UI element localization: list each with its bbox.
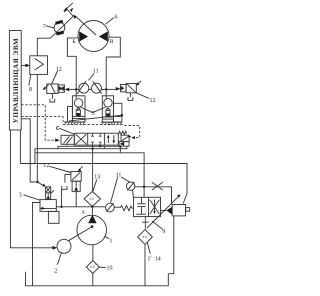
svg-text:11: 11 <box>116 172 122 178</box>
leader <box>52 71 58 84</box>
leader 11 <box>89 74 95 81</box>
servo cylinder right body <box>102 96 113 122</box>
pump control cylinder 3 <box>40 200 56 212</box>
right cylinder ball <box>104 99 112 107</box>
valve 12b solenoid arrow <box>137 81 141 84</box>
leader 1 <box>104 236 109 239</box>
channel line with arrow to valve 12a <box>68 88 79 90</box>
adjuster arrowhead lower-left <box>64 8 67 12</box>
hydraulic motor M6 variable displacement arrow <box>75 15 97 35</box>
valve 12c drain <box>65 174 71 182</box>
wire from check valve down to tank <box>168 216 174 274</box>
orifice 11 lower <box>106 203 115 212</box>
shaft adjuster cross lines <box>64 3 73 11</box>
wire: reducing valve to rail 1 <box>119 146 121 153</box>
plugged port X <box>152 182 163 190</box>
amplifier U8 <box>30 56 48 75</box>
X in left cell <box>76 134 87 144</box>
svg-text:7: 7 <box>43 24 46 30</box>
leader <box>136 93 149 99</box>
wire: drain column <box>61 189 63 207</box>
leader 10 <box>99 266 106 269</box>
pilot lower cell check <box>47 193 49 195</box>
right cell arrows <box>107 136 109 143</box>
motor left flow triangle <box>79 31 88 41</box>
drain stubs under valve 9 <box>142 217 149 230</box>
valve spring <box>118 131 126 135</box>
sensor 7 brush pad bottom <box>56 31 64 36</box>
dashed pilot line along base to reducing valve <box>63 124 140 137</box>
shaft diagonal through sensor 7 <box>50 16 73 38</box>
lever pivot dot <box>121 114 123 116</box>
svg-text:2: 2 <box>54 269 57 275</box>
check valve triangle at wall <box>161 210 167 212</box>
arrowhead into solenoid <box>55 138 60 142</box>
arrowhead into reducing valve <box>131 136 135 139</box>
valve 12b side section <box>120 85 126 92</box>
svg-text:Б: Б <box>72 39 75 45</box>
line with plug X <box>135 187 172 205</box>
label 2 leader <box>57 253 62 265</box>
wire: amplifier lower output <box>36 74 38 182</box>
svg-text:8: 8 <box>29 87 32 93</box>
wire: computer third output down to pilot junction <box>21 119 37 182</box>
spring to relief valve 9 <box>120 206 133 211</box>
sensor 7 brush pad top <box>55 20 63 25</box>
pilot valve arrow tick <box>51 190 54 193</box>
leader 14 <box>147 243 150 254</box>
valve 12c solenoid arrow <box>79 166 83 170</box>
wire: diamond 14 to tank <box>144 244 146 285</box>
rail 1 <box>35 153 144 198</box>
sensor 2 (swash angle sensor) <box>57 239 71 253</box>
svg-text:Г: Г <box>148 257 152 263</box>
svg-text:1: 1 <box>110 239 113 245</box>
directional valve body <box>74 133 118 145</box>
valve 12c body <box>71 172 81 182</box>
left cylinder ball <box>74 99 82 107</box>
control computer box (УПРАВЛЯЮЩАЯ ЭВМ) <box>9 31 21 131</box>
feedback lever long <box>69 115 122 121</box>
wire: filter 10 to tank <box>92 274 94 286</box>
arrowhead into amplifier <box>25 64 30 68</box>
adjuster arrowhead upper-right <box>70 8 73 13</box>
svg-text:А: А <box>81 210 85 216</box>
tank <box>26 272 169 286</box>
orifice 11 right circle <box>92 83 102 93</box>
left spool <box>76 110 80 117</box>
arrowhead at motor arrow tip <box>73 15 77 19</box>
motor 6 circle <box>78 21 109 52</box>
feedback lever V left <box>80 107 92 113</box>
svg-text:14: 14 <box>155 256 161 262</box>
left anchor housing <box>68 107 73 122</box>
filter 13 to main line <box>91 205 93 207</box>
svg-text:13: 13 <box>94 175 100 181</box>
left piston lines <box>72 115 85 117</box>
relief valve diagonal arrow <box>147 196 179 228</box>
filter 10 diamond <box>86 261 99 274</box>
cooler 14 diamond <box>138 230 153 245</box>
svg-text:9: 9 <box>162 229 165 235</box>
filter 13 diamond <box>84 191 100 206</box>
pilot valve of pump control <box>39 183 45 186</box>
valve 12a solenoid arrow <box>44 85 49 89</box>
right spool <box>106 110 110 117</box>
valve 12b drain <box>129 93 131 97</box>
wire: computer bottom to rail 2 <box>19 130 21 164</box>
supply junction dot <box>91 148 93 150</box>
right anchor housing <box>114 103 122 122</box>
arrowhead into sensor 2 <box>52 246 57 250</box>
piston plates inside <box>141 197 143 203</box>
rail 2 <box>20 164 187 204</box>
svg-text:5: 5 <box>92 111 95 117</box>
check valve box <box>172 205 185 216</box>
leader 3 <box>24 195 41 200</box>
reducing valve arrow <box>122 136 130 141</box>
leader 13 <box>93 180 97 192</box>
wire: pump outlet <box>91 207 93 215</box>
motor right flow triangle <box>99 31 108 41</box>
main low pressure line <box>56 206 105 208</box>
valve 12a side section with check triangles <box>58 85 64 92</box>
leader 9 <box>152 221 163 229</box>
valve 12c lower section with check <box>72 181 80 191</box>
wire: motor right port down to channel <box>106 37 120 98</box>
port drops <box>92 145 94 149</box>
proportional valve 12b body <box>126 84 136 93</box>
wire: feedback bus from computer down left side <box>10 130 54 248</box>
pump swash linkage <box>68 227 92 241</box>
X in right cell <box>150 200 160 214</box>
center cell blocked ports <box>91 133 102 145</box>
svg-text:3: 3 <box>19 193 22 199</box>
orifice 11 upper <box>127 182 135 190</box>
junction dot <box>143 186 145 188</box>
valve underside pipe 1 <box>58 146 119 148</box>
feedback lever V right <box>93 107 106 113</box>
linkage horizontal to shaft <box>37 37 50 39</box>
ground hatching right <box>102 122 122 125</box>
svg-text:12: 12 <box>150 98 156 104</box>
junction dot <box>36 181 38 183</box>
channel segments <box>89 88 92 90</box>
valve underside pipe 2 <box>35 146 127 149</box>
leader 7 <box>46 26 54 28</box>
leader 6 <box>106 18 114 25</box>
left rail connector <box>34 149 36 164</box>
reducing valve lower section <box>119 142 129 147</box>
leader 8 <box>29 75 31 86</box>
leader to upper orifice <box>121 177 130 182</box>
junction dots on channel <box>75 88 77 90</box>
svg-text:6: 6 <box>115 15 118 21</box>
sensor 7 (tachogenerator) <box>54 22 65 33</box>
svg-text:12: 12 <box>43 163 49 169</box>
leader to lower orifice <box>111 177 118 203</box>
orifice 11 left circle <box>79 83 89 93</box>
mechanical shaft linkage vertical to amplifier <box>36 38 38 56</box>
wire: 12c output down <box>75 192 77 207</box>
cylinder 3 sub box <box>48 211 59 223</box>
pump outlet triangle <box>88 215 96 224</box>
bus stub into check valve <box>186 208 190 212</box>
dashed control line A from computer <box>21 105 57 140</box>
relief valve 9 body <box>134 197 161 216</box>
valve lever with hook <box>56 127 58 130</box>
dashed control line B from computer <box>21 117 63 125</box>
servo cylinder left body <box>72 96 85 122</box>
svg-text:В: В <box>110 39 114 45</box>
supply line down to filter 13 <box>92 149 94 192</box>
right piston lines <box>102 116 113 118</box>
pressure reducing valve body <box>121 135 129 141</box>
svg-text:УПРАВЛЯЮЩАЯ ЭВМ: УПРАВЛЯЮЩАЯ ЭВМ <box>12 38 20 123</box>
wire orifice to relief valve top <box>132 190 135 197</box>
pump 1 circle <box>77 215 107 245</box>
leader <box>50 166 71 172</box>
directional valve solenoid box <box>61 135 74 144</box>
ground hatching left <box>65 122 85 125</box>
proportional valve 12a body <box>47 84 58 94</box>
valve 12a drain <box>51 94 53 100</box>
wire: computer to amplifier <box>21 64 27 66</box>
check triangle in lower section <box>120 142 125 146</box>
svg-text:10: 10 <box>107 266 113 272</box>
wire: box 3 left port to tank <box>33 203 41 286</box>
wire: motor left port down to channel <box>67 38 78 99</box>
arrowhead into valve 12b <box>116 87 121 91</box>
wire: pump suction <box>92 245 94 261</box>
